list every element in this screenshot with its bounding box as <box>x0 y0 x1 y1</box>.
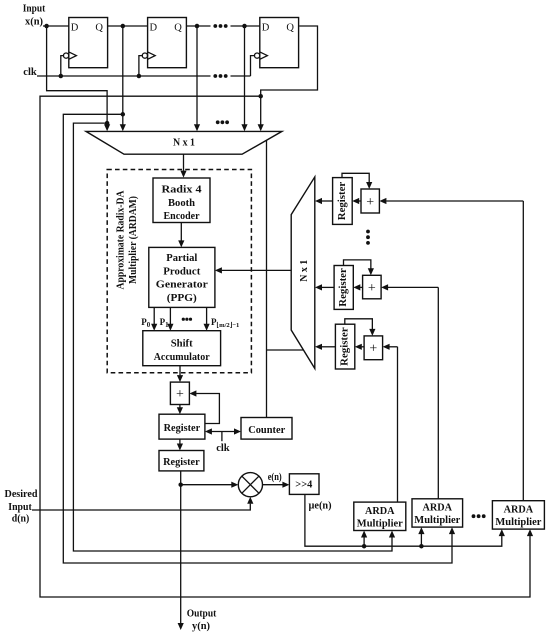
svg-text:Register: Register <box>164 422 201 434</box>
wire adder to Register A <box>179 405 181 408</box>
adder weight 2 <box>363 275 382 299</box>
flip-flop FF3 <box>255 18 299 68</box>
svg-text:Product: Product <box>163 265 200 277</box>
wire Booth Encoder to PPG <box>180 223 182 241</box>
wire Shift Accumulator to adder <box>179 366 181 376</box>
wire Register B to output y(n) <box>180 471 182 623</box>
svg-text:+: + <box>366 195 374 210</box>
node FF2 Q junction <box>195 24 200 29</box>
wire Register A feedback to adder <box>196 394 219 424</box>
wire mu e(n) to ARDA multipliers <box>305 494 502 546</box>
ellipsis PPG outputs <box>182 318 185 321</box>
svg-text:P⌊m/2⌋−1: P⌊m/2⌋−1 <box>211 317 239 329</box>
svg-text:Register: Register <box>338 268 349 307</box>
flip-flop FF1 <box>64 18 108 68</box>
wire bus B x(n-1) wrap to ARDA Multiplier 2 <box>63 114 452 563</box>
svg-text:clk: clk <box>216 443 230 454</box>
wire e(n) to shifter <box>263 484 283 486</box>
wire PPG output P1 <box>169 307 171 324</box>
wire Counter to mux selects <box>266 140 268 417</box>
wire bus A x(n-N+1) wrap to ARDA Multiplier 3 <box>40 96 530 597</box>
ellipsis mux inputs <box>216 120 220 124</box>
wire x(n) to FF1 D <box>43 25 69 27</box>
wire clk to FF2 clock <box>139 56 142 76</box>
wire Register A Counter double arrow <box>211 431 235 433</box>
svg-text:P0: P0 <box>141 317 151 329</box>
svg-text:Generator: Generator <box>156 279 208 291</box>
svg-text:y(n): y(n) <box>192 621 210 632</box>
wire register 3 feedback to adder 3 <box>345 319 373 330</box>
block right shift by 4 <box>289 474 319 495</box>
node mu e branch 2 <box>419 544 424 549</box>
register weight 3 <box>335 324 354 369</box>
wire clk line <box>37 75 211 77</box>
flip-flop FF2 <box>142 18 186 68</box>
svg-text:+: + <box>368 281 376 296</box>
ellipsis top data line <box>213 24 217 28</box>
wire clk to FF1 clock <box>61 56 64 76</box>
svg-text:Multiplier: Multiplier <box>495 517 541 528</box>
svg-text:Register: Register <box>337 181 348 220</box>
block Partial Product Generator <box>149 247 215 307</box>
svg-text:+: + <box>176 387 184 402</box>
block Register A <box>159 414 205 439</box>
node x(n) tap <box>44 24 49 29</box>
node clk FF2 tap <box>137 74 142 79</box>
wire FF2 Q down to mux input 3 <box>196 26 198 125</box>
node clk FF1 tap <box>59 74 64 79</box>
svg-text:clk: clk <box>23 67 37 78</box>
wire mu e branch to ARDA 2 <box>420 534 422 546</box>
svg-text:>>4: >>4 <box>295 480 313 491</box>
wire clk to FF3 clock <box>251 56 255 76</box>
node mu e branch 1 <box>362 544 367 549</box>
wire PPG output P0 <box>153 307 155 324</box>
wire d(n) to multiplier <box>32 504 250 510</box>
svg-text:Q: Q <box>95 23 103 34</box>
wire FF1 Q to FF2 D <box>108 25 148 27</box>
wire tap down to mux input 4 <box>244 26 246 125</box>
wire clk line right segment <box>231 75 251 77</box>
ellipsis ARDA multipliers <box>472 514 476 518</box>
node y(n) tap <box>178 482 183 487</box>
wire ARDA Multiplier 1 to adder 3 <box>397 347 399 502</box>
node bus B join <box>121 112 126 117</box>
register weight 2 <box>334 266 353 310</box>
multiplier error node <box>238 473 262 497</box>
adder weight 1 <box>361 189 379 213</box>
svg-text:+: + <box>369 342 377 357</box>
node bus C join <box>105 121 110 126</box>
block Radix 4 Booth Encoder <box>153 178 210 223</box>
svg-text:ARDA: ARDA <box>423 503 453 514</box>
node FF1 Q junction <box>121 24 126 29</box>
wire register 2 feedback to adder 2 <box>344 260 371 269</box>
wire ARDA Multiplier 2 to adder 2 <box>437 287 439 498</box>
block ARDA Multiplier 3 <box>492 501 544 529</box>
svg-text:µe(n): µe(n) <box>309 501 332 512</box>
block Register B <box>159 451 204 471</box>
svg-text:Output: Output <box>187 609 217 620</box>
node bus A join <box>258 94 263 99</box>
wire adder 1 to register 1 <box>359 200 361 202</box>
wire FF3 Q down to mux input 5 <box>261 26 318 125</box>
wire register 2 to weight mux <box>322 286 334 288</box>
wire FF1 Q down to mux input 2 <box>122 26 124 125</box>
wire register 1 feedback to adder 1 <box>342 173 369 182</box>
svg-text:Register: Register <box>340 327 351 366</box>
svg-text:Multiplier (ARDAM): Multiplier (ARDAM) <box>128 196 139 284</box>
wire clk stub <box>221 432 223 442</box>
input label x(n) <box>23 3 46 28</box>
svg-text:ARDA: ARDA <box>504 504 534 515</box>
block Counter <box>241 418 292 440</box>
svg-text:D: D <box>150 23 158 34</box>
svg-text:D: D <box>262 23 270 34</box>
wire mu e branch to ARDA 1 <box>363 537 365 546</box>
svg-text:Q: Q <box>286 23 294 34</box>
wire mux output to Radix 4 Booth Encoder <box>183 154 185 171</box>
ARDAM rotated label <box>116 190 140 289</box>
svg-text:Approximate Radix-DA: Approximate Radix-DA <box>116 190 127 289</box>
svg-text:Input: Input <box>23 3 46 15</box>
wire select branch to weight mux <box>267 349 304 351</box>
svg-text:Desired: Desired <box>5 489 38 500</box>
wire weight mux output to PPG <box>222 269 292 271</box>
svg-text:ARDA: ARDA <box>365 506 395 517</box>
wire y(n) to multiplier <box>181 484 232 486</box>
svg-text:D: D <box>71 23 79 34</box>
ARDAM dashed boundary <box>107 170 251 373</box>
ellipsis weight rows <box>366 230 370 234</box>
wire adder 2 to register 2 <box>360 286 363 288</box>
wire ARDA input to adder 1 <box>386 200 523 202</box>
wire register 3 to weight mux <box>322 346 336 348</box>
svg-text:Accumulator: Accumulator <box>154 351 210 363</box>
block Shift Accumulator <box>143 331 221 366</box>
block ARDA Multiplier 2 <box>412 499 463 527</box>
block ARDA Multiplier 1 <box>354 502 406 530</box>
wire ARDA input to adder 2 <box>388 286 438 288</box>
svg-text:Counter: Counter <box>248 424 285 436</box>
svg-text:N x 1: N x 1 <box>299 260 310 282</box>
svg-text:Q: Q <box>174 23 182 34</box>
wire ARDA Multiplier 3 to adder 1 <box>522 201 524 501</box>
mux N x 1 weight selector <box>291 177 315 369</box>
wire ARDA input to adder 3 <box>389 346 397 348</box>
wire FF2 Q to dots <box>186 25 210 27</box>
register weight 1 <box>333 178 353 225</box>
wire dots to FF3 D <box>231 25 260 27</box>
wire Register A to Register B <box>179 439 181 444</box>
svg-text:N x 1: N x 1 <box>173 137 195 148</box>
wire adder 3 to register 3 <box>362 346 365 348</box>
adder accumulator <box>170 382 189 404</box>
svg-text:(PPG): (PPG) <box>167 292 197 304</box>
wire x(n) tap to mux input 1 <box>47 26 108 125</box>
svg-text:x(n): x(n) <box>25 16 43 28</box>
wire PPG output Pm <box>206 307 208 324</box>
wire register 1 to weight mux <box>322 200 333 202</box>
mux N x 1 input selector <box>86 131 282 154</box>
svg-text:e(n): e(n) <box>268 472 282 483</box>
ellipsis clk line <box>213 74 217 78</box>
svg-text:Multiplier: Multiplier <box>357 518 403 529</box>
svg-text:Multiplier: Multiplier <box>414 515 460 526</box>
svg-text:Input: Input <box>8 502 32 513</box>
svg-text:Booth: Booth <box>168 197 195 209</box>
desired input label <box>5 489 38 524</box>
svg-text:P1: P1 <box>160 317 170 329</box>
node tap before FF3 <box>242 24 247 29</box>
svg-text:Encoder: Encoder <box>164 210 200 222</box>
svg-text:Radix 4: Radix 4 <box>162 184 203 196</box>
output label <box>187 609 217 632</box>
svg-text:d(n): d(n) <box>12 513 30 524</box>
svg-text:Shift: Shift <box>171 338 193 350</box>
adder weight 3 <box>364 336 383 360</box>
svg-text:Partial: Partial <box>166 252 197 264</box>
wire bus C x(n) wrap to ARDA Multiplier 1 <box>73 123 392 551</box>
svg-text:Register: Register <box>163 456 200 468</box>
